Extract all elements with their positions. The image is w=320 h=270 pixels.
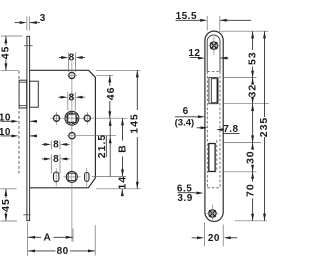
latch bolt body inside case bbox=[30, 81, 39, 107]
lock case outline bbox=[30, 70, 96, 188]
faceplate screw marks (edge view) bbox=[23, 46, 32, 215]
svg-text:8: 8 bbox=[69, 53, 75, 64]
svg-text:10: 10 bbox=[0, 113, 11, 124]
dim 53 bbox=[247, 31, 259, 77]
svg-text:A: A bbox=[44, 232, 52, 243]
bottom screw hole bbox=[209, 210, 216, 217]
svg-text:3.9: 3.9 bbox=[177, 193, 192, 204]
svg-text:53: 53 bbox=[247, 51, 259, 65]
inner case hidden edges (dashed) bbox=[207, 72, 220, 188]
dim 145 bbox=[129, 70, 141, 188]
lower follower (WC hub) bbox=[66, 171, 77, 182]
dashed projection line (bolt extended) bbox=[18, 71, 20, 174]
right hole bbox=[84, 115, 90, 121]
svg-text:32: 32 bbox=[246, 84, 258, 98]
latch cutout bbox=[209, 78, 218, 104]
label 7.8 with leader bbox=[216, 124, 240, 135]
svg-text:8: 8 bbox=[53, 154, 59, 165]
centerline ticks left hole bbox=[56, 112, 58, 125]
dim 70 bbox=[244, 172, 256, 221]
dim 46 bbox=[105, 75, 117, 118]
dim 32 bbox=[246, 78, 258, 104]
dim 235 bbox=[258, 31, 270, 220]
svg-text:30: 30 bbox=[244, 150, 256, 164]
dim 21.5 bbox=[96, 118, 112, 176]
dim 8 row1 (oval slot) bbox=[42, 140, 70, 151]
dim B bbox=[117, 118, 129, 176]
faceplate stadium outline bbox=[205, 31, 223, 221]
right oval slot bbox=[85, 173, 89, 182]
follower (square spindle hub) bbox=[63, 108, 81, 127]
dim 30 bbox=[244, 143, 256, 172]
dim 8 top (spindle square) bbox=[59, 53, 85, 73]
dim 8 row2 (oval slot) bbox=[42, 154, 70, 173]
svg-text:45: 45 bbox=[0, 46, 12, 60]
dim 8 middle (follower square) bbox=[58, 92, 84, 111]
svg-text:8: 8 bbox=[53, 140, 59, 151]
lower small hole bbox=[69, 133, 75, 139]
svg-text:(3.4): (3.4) bbox=[175, 117, 195, 128]
left hole bbox=[53, 115, 59, 121]
centerline ticks ovals bbox=[56, 168, 87, 187]
centerline ticks right hole bbox=[86, 112, 88, 125]
deadbolt cutout bbox=[209, 144, 215, 172]
dim 20 bbox=[192, 233, 238, 244]
svg-text:8: 8 bbox=[69, 92, 75, 103]
latch bolt head bbox=[19, 80, 27, 108]
top fixing hole bbox=[69, 72, 75, 78]
svg-text:46: 46 bbox=[105, 87, 117, 101]
dim 3 (plate thickness) bbox=[15, 13, 46, 31]
dim 80 bbox=[28, 246, 95, 257]
unlabeled tie between latch and deadbolt cutouts bbox=[251, 104, 254, 142]
inner profile solid top bbox=[207, 35, 220, 72]
faceplate edge-on strip bbox=[26, 36, 30, 220]
dim 45 bottom bbox=[0, 189, 12, 221]
dim 12 bbox=[188, 48, 228, 59]
dim 15.5 bbox=[176, 11, 252, 31]
dim A bbox=[28, 232, 73, 243]
svg-text:14: 14 bbox=[116, 176, 128, 190]
svg-text:3: 3 bbox=[40, 13, 46, 24]
svg-text:70: 70 bbox=[244, 183, 256, 197]
svg-text:6: 6 bbox=[183, 106, 189, 117]
label 6.5 / 3.9 with leader bbox=[177, 183, 204, 204]
extension lines right view bbox=[205, 31, 269, 246]
left oval slot bbox=[54, 172, 59, 182]
label 6 with leader bbox=[175, 106, 205, 118]
deadbolt hidden edge dashed bbox=[216, 140, 218, 172]
dim 14 bbox=[116, 176, 128, 197]
svg-text:45: 45 bbox=[0, 198, 12, 212]
dim 10 lower bbox=[0, 127, 37, 138]
dim 45 top bbox=[0, 36, 12, 70]
top screw hole bbox=[210, 42, 217, 49]
svg-text:20: 20 bbox=[208, 233, 220, 244]
label (3.4) with leader bbox=[175, 117, 208, 129]
svg-text:235: 235 bbox=[258, 117, 270, 138]
svg-text:80: 80 bbox=[57, 246, 69, 257]
horizontal centerline through handle row bbox=[50, 117, 94, 119]
svg-text:145: 145 bbox=[129, 113, 141, 134]
extension lines left view bbox=[1, 36, 141, 256]
vertical centerline through follower axis bbox=[71, 62, 73, 242]
dim 10 upper bbox=[0, 113, 37, 124]
svg-text:B: B bbox=[117, 144, 129, 153]
latch face through cutout bbox=[211, 79, 217, 103]
